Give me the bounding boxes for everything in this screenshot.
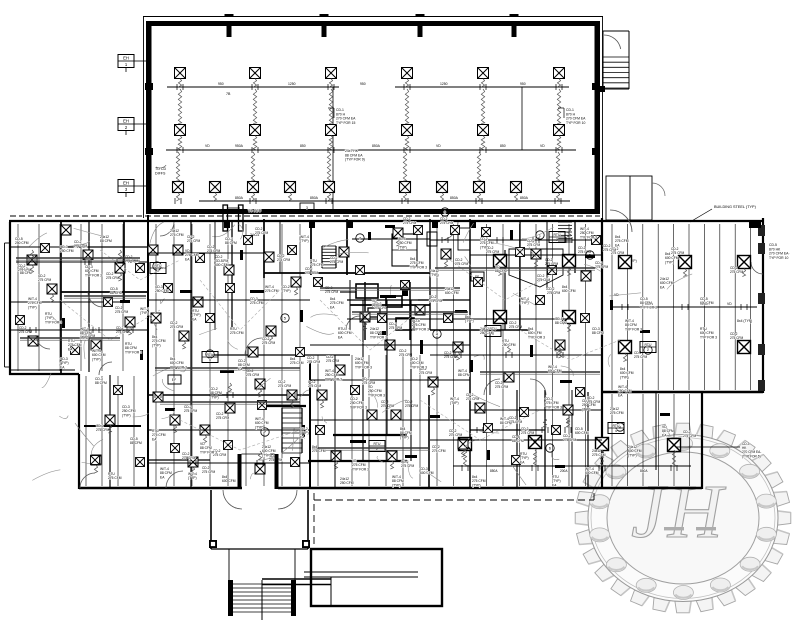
svg-text:7B: 7B [226, 92, 231, 96]
svg-text:850: 850 [500, 144, 506, 148]
svg-text:950A: 950A [235, 144, 244, 148]
svg-text:850A: 850A [372, 144, 381, 148]
svg-text:950: 950 [218, 82, 224, 86]
svg-text:1250: 1250 [288, 82, 296, 86]
svg-text:850A: 850A [235, 196, 244, 200]
svg-text:950: 950 [360, 82, 366, 86]
svg-text:EH: EH [123, 56, 129, 61]
svg-text:RTU: RTU [207, 353, 214, 357]
svg-text:850A: 850A [310, 196, 319, 200]
svg-text:CD-2(TYP): CD-2(TYP) [282, 285, 291, 293]
svg-text:24x12(TYP): 24x12(TYP) [430, 269, 439, 277]
svg-text:EF: EF [172, 378, 176, 382]
svg-text:850A: 850A [640, 469, 648, 473]
svg-text:3: 3 [306, 206, 308, 210]
svg-text:8x4 (TYP): 8x4 (TYP) [737, 319, 752, 323]
svg-text:RTU: RTU [374, 442, 381, 446]
svg-text:RTU: RTU [613, 424, 620, 428]
svg-text:W/T-4(TYP): W/T-4(TYP) [520, 297, 529, 305]
svg-text:W/T-4(TYP): W/T-4(TYP) [188, 472, 197, 480]
svg-text:VD: VD [436, 144, 441, 148]
svg-text:850: 850 [300, 144, 306, 148]
svg-text:TO CDDIFFS: TO CDDIFFS [155, 167, 167, 176]
svg-text:VD: VD [540, 144, 545, 148]
svg-text:2: 2 [647, 348, 649, 352]
svg-text:W/T-4(TYP): W/T-4(TYP) [140, 307, 149, 315]
svg-text:RTU: RTU [490, 327, 497, 331]
svg-text:5: 5 [209, 358, 211, 362]
svg-text:JH: JH [631, 470, 727, 554]
svg-text:850A: 850A [520, 196, 529, 200]
svg-text:RTU: RTU [155, 264, 162, 268]
svg-text:RTU: RTU [554, 233, 561, 237]
svg-text:BUILDING STEEL (TYP): BUILDING STEEL (TYP) [714, 205, 757, 209]
svg-text:VD: VD [727, 302, 732, 306]
svg-text:850A: 850A [450, 196, 459, 200]
svg-text:EH: EH [123, 181, 129, 186]
svg-text:850A: 850A [490, 469, 498, 473]
svg-text:200A: 200A [560, 469, 568, 473]
svg-text:1250: 1250 [440, 82, 448, 86]
svg-text:VD: VD [205, 144, 210, 148]
svg-text:RTU: RTU [645, 343, 652, 347]
svg-text:4: 4 [615, 429, 617, 433]
svg-text:950: 950 [520, 82, 526, 86]
svg-text:W/T-4(TYP): W/T-4(TYP) [300, 235, 309, 243]
svg-text:W/T-4(TYP): W/T-4(TYP) [450, 397, 459, 405]
svg-text:TO RTU: TO RTU [248, 209, 262, 213]
svg-text:EH: EH [123, 119, 129, 124]
